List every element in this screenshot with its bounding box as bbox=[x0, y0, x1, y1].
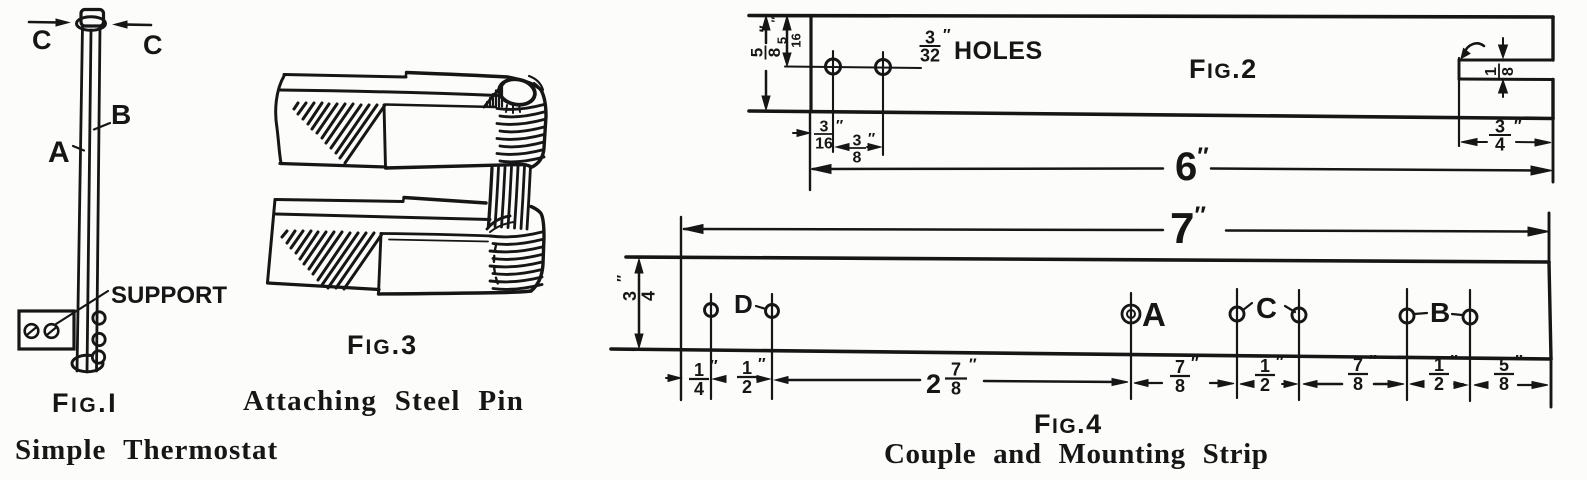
dim 5/8 vertical line bbox=[765, 22, 768, 105]
svg-text:4: 4 bbox=[694, 379, 704, 399]
dim 3/8 right arrow bbox=[867, 146, 874, 148]
svg-text:D: D bbox=[734, 289, 753, 319]
fig2 rotated dim label 1/8 at slit bbox=[1483, 64, 1517, 80]
rivet bump 3 bbox=[92, 351, 104, 363]
fig2 dim label 3/8 bbox=[848, 130, 875, 167]
fig4 dim label 7/8b bbox=[1348, 353, 1377, 394]
slit bottom edge bbox=[1459, 78, 1553, 82]
svg-text:7: 7 bbox=[951, 360, 961, 380]
svg-text:″: ″ bbox=[769, 17, 783, 23]
dim 1/8 bottom arrow at slit bbox=[1502, 88, 1504, 97]
hole C2 bbox=[1292, 308, 1306, 322]
svg-text:″: ″ bbox=[1450, 353, 1458, 370]
rivet bump 1 bbox=[93, 312, 105, 324]
fig2 dim label 3/16 bbox=[814, 117, 843, 153]
svg-text:″: ″ bbox=[1191, 355, 1199, 372]
hole A outer bbox=[1122, 305, 1140, 323]
hole B1 bbox=[1400, 309, 1414, 323]
svg-text:FIG.3: FIG.3 bbox=[347, 330, 418, 360]
lower pin band top inner line bbox=[389, 240, 488, 242]
dim 5/8 up arrow bbox=[762, 16, 770, 30]
svg-text:″: ″ bbox=[758, 356, 766, 373]
svg-text:″: ″ bbox=[614, 275, 631, 282]
svg-text:5: 5 bbox=[748, 48, 767, 57]
dim 7in right extension line bbox=[1548, 213, 1551, 260]
dim 3/4 right arrow bbox=[1516, 141, 1537, 143]
hole centerline horizontal bbox=[785, 67, 921, 69]
fig2 rotated dim label 5/16 bbox=[769, 17, 804, 48]
leader C1 to C bbox=[1243, 303, 1252, 310]
strip bottom edge bbox=[749, 111, 1553, 119]
hole C1 extension line bbox=[1236, 289, 1238, 398]
extension line strip right edge lower bbox=[1552, 120, 1555, 182]
svg-text:4: 4 bbox=[639, 291, 659, 301]
dim 5/16 vertical line bbox=[786, 22, 789, 62]
fig4 dim label 7/8a bbox=[1170, 355, 1199, 396]
svg-text:1: 1 bbox=[1434, 355, 1444, 375]
svg-text:8: 8 bbox=[765, 48, 784, 57]
dim 5/8 down arrow bbox=[762, 96, 770, 110]
hole C1 bbox=[1230, 307, 1244, 321]
upper pin band bottom edge bbox=[386, 165, 532, 169]
right C arrow bbox=[123, 23, 151, 26]
svg-text:A: A bbox=[1142, 296, 1166, 333]
svg-text:C: C bbox=[143, 30, 163, 60]
fig4 dim label 5/8 bbox=[1494, 353, 1523, 394]
strip bottom edge bbox=[611, 349, 1551, 359]
svg-text:3: 3 bbox=[1495, 117, 1505, 137]
upper pin coil wraps bbox=[497, 105, 544, 110]
strip middle line bbox=[87, 30, 91, 372]
svg-text:Couple and Mounting Strip: Couple and Mounting Strip bbox=[884, 438, 1268, 470]
svg-text:″: ″ bbox=[943, 27, 951, 44]
upper bar front top edge bbox=[280, 90, 497, 96]
svg-text:8: 8 bbox=[951, 379, 961, 399]
leader B to strip bbox=[94, 123, 110, 130]
support bracket bbox=[19, 311, 74, 349]
dim 7/8b left arrowhead bbox=[1303, 381, 1317, 388]
strip right edge bbox=[1549, 262, 1551, 359]
dim 3/8 left arrowhead bbox=[836, 144, 849, 151]
fig2 dim label 3/4 bbox=[1489, 117, 1522, 155]
strip left edge bbox=[809, 16, 812, 112]
dim 7in left extension line bbox=[680, 217, 682, 400]
upper pin tucked end hatch triangle bbox=[484, 83, 504, 107]
strip top edge bbox=[626, 257, 1549, 262]
svg-text:1: 1 bbox=[1260, 356, 1270, 376]
svg-text:Attaching Steel Pin: Attaching Steel Pin bbox=[243, 385, 524, 417]
lower pin band bottom edge bbox=[379, 291, 532, 294]
svg-text:1: 1 bbox=[742, 358, 752, 378]
FIG2-GROUP bbox=[749, 16, 1553, 191]
dim 1/2a left arrowhead bbox=[713, 376, 726, 383]
dim 6in right arrowhead bbox=[1531, 166, 1552, 175]
extension line below strip left edge bbox=[809, 113, 811, 190]
leader D to D2 bbox=[756, 306, 766, 309]
svg-text:8: 8 bbox=[1353, 374, 1363, 394]
upper pin rear edge and outer right curve bbox=[407, 73, 547, 168]
fig4 dim label 1/2b bbox=[1255, 354, 1284, 395]
dim 1/2c right arrow bbox=[1454, 383, 1463, 385]
dim 1/4 left arrow bbox=[666, 377, 676, 379]
svg-text:32: 32 bbox=[920, 46, 940, 66]
upper bar rear top edge bbox=[284, 75, 406, 78]
dim 3/16 left arrow stub bbox=[793, 132, 801, 134]
dim 5/16 down arrow bbox=[783, 53, 791, 66]
svg-text:5: 5 bbox=[775, 37, 790, 44]
upper pin wire ticks below loop bbox=[506, 105, 520, 114]
hole A inner bbox=[1127, 310, 1135, 318]
strip top edge bbox=[749, 16, 1553, 18]
pin strands between bars bbox=[489, 168, 493, 226]
rivet bump 2 bbox=[93, 333, 105, 345]
svg-text:8: 8 bbox=[1500, 67, 1517, 76]
svg-text:C: C bbox=[32, 25, 52, 55]
fig4 dim label 1/2c bbox=[1429, 353, 1458, 394]
upper bar left jagged end bbox=[276, 76, 284, 163]
svg-text:B: B bbox=[111, 99, 131, 130]
slit top edge bbox=[1459, 59, 1553, 62]
hole H2 bbox=[876, 60, 891, 75]
svg-text:1: 1 bbox=[694, 360, 704, 380]
svg-text:″: ″ bbox=[969, 357, 977, 374]
slit leader hook bbox=[1464, 43, 1484, 53]
strip line A left edge bbox=[77, 26, 83, 371]
upper bar pin step bbox=[406, 73, 407, 78]
hole C2 extension line bbox=[1298, 290, 1300, 400]
leader A to strip bbox=[73, 146, 84, 151]
svg-text:7: 7 bbox=[1353, 355, 1363, 375]
svg-text:B: B bbox=[1430, 297, 1450, 328]
hole D2 bbox=[766, 305, 779, 318]
bracket screw 2 bbox=[45, 324, 59, 338]
lower pin rear edge and outer right curve bbox=[404, 198, 486, 204]
svg-text:″: ″ bbox=[710, 358, 718, 375]
svg-text:2: 2 bbox=[742, 377, 752, 397]
lower bar pin step bbox=[403, 198, 404, 202]
svg-text:8: 8 bbox=[1175, 376, 1185, 396]
lower bar front top edge bbox=[276, 214, 490, 220]
leader B to B2 bbox=[1452, 314, 1462, 315]
hole B1 extension line bbox=[1406, 289, 1408, 400]
extension line slit left bbox=[1458, 58, 1460, 146]
svg-text:5: 5 bbox=[1499, 355, 1509, 375]
lower bar bottom edge bbox=[268, 283, 380, 290]
strip right edge upper bbox=[1551, 17, 1554, 60]
lower pin band top edge on front face bbox=[381, 234, 491, 237]
hole D1 extension line bbox=[710, 294, 712, 399]
svg-text:″: ″ bbox=[1276, 354, 1284, 371]
hole H1 vertical centerline / extension bbox=[832, 51, 834, 152]
svg-text:6″: 6″ bbox=[1175, 143, 1209, 189]
svg-text:16: 16 bbox=[789, 33, 804, 47]
hole D2 extension line bbox=[771, 294, 773, 399]
svg-text:2: 2 bbox=[1434, 374, 1444, 394]
strip right edge lower extension bbox=[1550, 359, 1553, 407]
dim 2-7/8 left arrowhead bbox=[775, 377, 788, 384]
clamp rect at top bbox=[81, 10, 104, 27]
FIG1-GROUP bbox=[19, 10, 151, 373]
upper pin coil over loop top right bbox=[529, 76, 544, 99]
svg-text:7: 7 bbox=[1175, 357, 1185, 377]
svg-text:3: 3 bbox=[853, 133, 862, 150]
dim 1/2a right arrow bbox=[757, 378, 764, 380]
svg-text:3: 3 bbox=[925, 28, 935, 48]
dim 7/8b right arrow bbox=[1374, 383, 1397, 386]
svg-text:″: ″ bbox=[1369, 353, 1377, 370]
dim 3/16 left arrowhead bbox=[797, 130, 810, 137]
svg-text:″: ″ bbox=[868, 130, 875, 147]
svg-text:1: 1 bbox=[1483, 67, 1500, 76]
dim 2-7/8 line right + arrowhead bbox=[984, 381, 1121, 382]
leader SUPPORT to bracket bbox=[56, 291, 108, 324]
svg-text:Simple Thermostat: Simple Thermostat bbox=[15, 434, 278, 466]
fig4 rotated dim label 3/4 bbox=[614, 275, 659, 301]
svg-text:HOLES: HOLES bbox=[954, 37, 1043, 65]
upper pin band top edge on front face bbox=[385, 105, 495, 108]
dim 6in left arrowhead bbox=[811, 165, 831, 174]
svg-text:A: A bbox=[48, 136, 70, 169]
FIG4-GROUP bbox=[611, 213, 1551, 407]
fig4 dim label 1/2a bbox=[737, 356, 766, 397]
svg-text:2: 2 bbox=[1260, 375, 1270, 395]
lower bar left slanted end bbox=[268, 200, 276, 283]
svg-text:″: ″ bbox=[1515, 353, 1523, 370]
lower bar rear top edge bbox=[275, 200, 403, 202]
dim 1/2b left arrowhead bbox=[1240, 381, 1254, 388]
FIG3-GROUP bbox=[268, 73, 547, 295]
hole H1 bbox=[826, 59, 841, 74]
leader B1 to B bbox=[1414, 313, 1427, 314]
dim 1/8 top arrow at slit bbox=[1502, 38, 1504, 50]
fig4 dim label 1/4 bbox=[689, 358, 718, 399]
svg-text:SUPPORT: SUPPORT bbox=[111, 282, 227, 309]
dim 3/4 left arrowhead bbox=[1461, 139, 1477, 146]
dim 1/2c left arrowhead bbox=[1410, 381, 1424, 388]
svg-text:3: 3 bbox=[820, 119, 829, 136]
strip bottom ellipse bbox=[72, 355, 103, 371]
hole B2 extension line bbox=[1469, 290, 1471, 401]
dim 5/16 up arrow bbox=[783, 16, 791, 30]
svg-text:″: ″ bbox=[757, 25, 774, 32]
svg-text:16: 16 bbox=[815, 136, 833, 153]
dim 3/4 vertical line bbox=[638, 264, 641, 344]
svg-text:FIG.I: FIG.I bbox=[52, 388, 118, 418]
dim 5/8 left arrowhead bbox=[1474, 382, 1488, 389]
slit left end bbox=[1458, 60, 1461, 79]
svg-text:7″: 7″ bbox=[1170, 202, 1206, 253]
lower pin band left edge bbox=[379, 234, 382, 294]
hole B2 bbox=[1463, 310, 1477, 324]
hole A extension line bbox=[1130, 293, 1132, 399]
upper pin loop opening bbox=[497, 77, 537, 108]
fig2 rotated dim label 5/8 bbox=[748, 25, 785, 59]
fig2 label 3/32 HOLES bbox=[920, 27, 952, 66]
dim 5/8 right arrow bbox=[1518, 384, 1538, 386]
lower pin coil wraps bbox=[490, 232, 542, 237]
bracket screw 1 bbox=[25, 324, 39, 338]
svg-text:4: 4 bbox=[1495, 135, 1505, 155]
upper bar bottom edge bbox=[280, 164, 386, 168]
svg-text:FIG.2: FIG.2 bbox=[1189, 54, 1258, 84]
lower pin hidden edge dashed bbox=[494, 245, 498, 284]
hole H2 vertical centerline / extension bbox=[882, 52, 884, 155]
dim 7/8a right arrow bbox=[1210, 382, 1226, 384]
dim 7/8a left arrowhead bbox=[1134, 380, 1148, 387]
dim 7in line bbox=[684, 229, 1163, 230]
strip line B right edge bbox=[97, 26, 101, 371]
dim 6in line right part bbox=[1211, 169, 1536, 171]
upper pin band left edge bbox=[384, 105, 386, 168]
svg-text:FIG.4: FIG.4 bbox=[1034, 409, 1103, 439]
hole D1 bbox=[705, 304, 718, 317]
svg-text:2: 2 bbox=[926, 369, 941, 399]
svg-text:″: ″ bbox=[1514, 118, 1522, 135]
svg-text:C: C bbox=[1256, 293, 1277, 325]
lower pin outer right curve bbox=[531, 207, 544, 292]
clamp rivet ellipse bbox=[77, 17, 106, 31]
svg-text:3: 3 bbox=[620, 291, 640, 301]
lower bar hatching bbox=[282, 231, 382, 289]
svg-text:″: ″ bbox=[836, 117, 843, 134]
upper bar hatching bbox=[294, 103, 385, 163]
left C arrow bbox=[29, 21, 60, 24]
dim 1/2b right arrow bbox=[1282, 383, 1292, 385]
lower pin loop top curves bbox=[487, 216, 510, 229]
svg-text:8: 8 bbox=[1499, 374, 1509, 394]
svg-text:8: 8 bbox=[853, 150, 862, 167]
dim 6in line left part bbox=[813, 167, 1163, 170]
leader C to C2 bbox=[1285, 306, 1295, 312]
strip right edge lower bbox=[1551, 80, 1554, 119]
